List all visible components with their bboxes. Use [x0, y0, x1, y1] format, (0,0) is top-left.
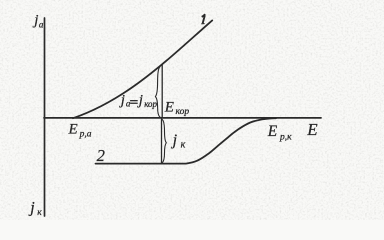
label j_a (y-axis top): [32, 13, 44, 30]
label j_k (y-axis bottom): [28, 200, 42, 218]
x-axis: [44, 117, 321, 119]
brace j_k lower: [162, 120, 166, 163]
svg-text:j: j: [171, 132, 178, 149]
label j_a = j_kor: [119, 93, 158, 109]
svg-text:к: к: [37, 208, 42, 218]
svg-text:Е: Е: [306, 120, 318, 139]
svg-text:р,а: р,а: [79, 130, 92, 140]
svg-text:р,к: р,к: [279, 133, 292, 143]
curve 2 cathodic: [96, 118, 277, 163]
svg-text:кор: кор: [176, 107, 190, 117]
label E_kor: [164, 100, 190, 118]
svg-text:Е: Е: [267, 123, 278, 140]
label j_k (below axis): [171, 132, 186, 150]
svg-text:а: а: [39, 19, 44, 29]
label E_p,a: [68, 121, 92, 139]
svg-text:к: к: [181, 139, 186, 150]
svg-text:2: 2: [97, 146, 105, 165]
y-axis: [44, 18, 46, 216]
svg-text:Е: Е: [68, 121, 78, 137]
svg-text:j: j: [28, 200, 35, 217]
label curve 1: [201, 14, 205, 24]
label E_p,k: [267, 123, 292, 143]
curve 1 anodic: [73, 20, 212, 118]
svg-text:Е: Е: [164, 100, 174, 116]
vertical line at E_kor: [161, 65, 163, 119]
brace j_a upper: [155, 67, 160, 117]
svg-text:кор: кор: [144, 99, 157, 109]
